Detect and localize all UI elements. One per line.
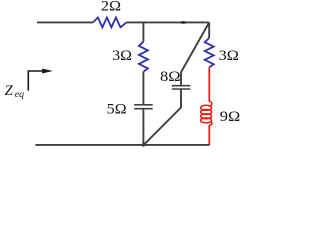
inductor L1 9ohm (red coil) [209, 101, 212, 106]
wire: top rail left segment [37, 21, 93, 23]
node Zeq arrow [28, 71, 43, 91]
svg-text:2Ω: 2Ω [101, 0, 121, 15]
wire: node A drop to left 3ohm [142, 22, 144, 41]
wire: left 3ohm to 5ohm cap [142, 72, 144, 105]
svg-text:eq: eq [15, 89, 24, 100]
svg-text:3Ω: 3Ω [112, 48, 132, 64]
capacitor C2 8ohm plates [172, 85, 191, 87]
capacitor C1 5ohm plates [134, 104, 153, 106]
wire: diagonal from 8ohm cap to bottom junction [143, 90, 181, 146]
resistor R1 2ohm (blue zigzag, top) [93, 18, 127, 28]
svg-text:9Ω: 9Ω [220, 109, 240, 125]
svg-text:5Ω: 5Ω [107, 102, 127, 118]
junction dot on top rail [180, 21, 186, 24]
wire: red lead inductor to bottom rail [208, 125, 210, 145]
resistor R2 3ohm (blue zigzag, left vertical) [139, 42, 148, 72]
wire: red lead 3ohm to inductor [208, 67, 210, 101]
resistor R3 3ohm (blue zigzag, right vertical) [205, 38, 214, 67]
svg-text:Z: Z [5, 83, 14, 99]
wire: bottom rail [35, 144, 209, 146]
junction dot bottom [142, 143, 145, 146]
wire: 5ohm cap to bottom rail [142, 109, 144, 145]
wire: top rail right segment [127, 21, 210, 23]
wire: top-right corner drop to right 3ohm [208, 22, 210, 38]
wire: diagonal from top-right corner to 8ohm cap [181, 22, 209, 85]
svg-text:3Ω: 3Ω [219, 48, 239, 64]
svg-text:8Ω: 8Ω [160, 69, 181, 85]
